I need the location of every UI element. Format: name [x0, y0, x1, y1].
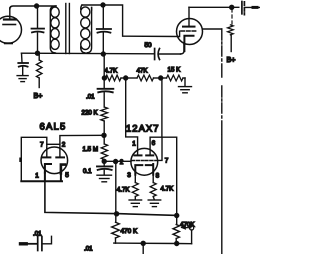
svg-text:B+: B+ [34, 91, 43, 100]
svg-text:0.1: 0.1 [83, 168, 92, 175]
wire plate feed pin1 [126, 78, 138, 155]
node nub on rail [19, 158, 21, 163]
resistor R9 4.7K right cathode [150, 175, 156, 200]
node junction R3/R4 [124, 76, 128, 80]
transformer T1 primary winding [50, 6, 59, 53]
svg-text:8: 8 [156, 173, 160, 180]
node junction grid / 470K [114, 160, 118, 164]
capacitor C4 value 50 [155, 49, 160, 60]
wire plate feed pin6 [150, 78, 177, 215]
wire 6AL5 cathode bottom [21, 173, 62, 182]
tube V1 (detector) [0, 8, 22, 43]
ground under C7 [97, 175, 112, 182]
resistor R7 1.5M [101, 135, 107, 159]
node junction 470K bus [115, 212, 119, 216]
transformer T1 core [66, 4, 70, 54]
node junction top cap C1 [35, 4, 39, 8]
capacitor C3 (tank tuning) [97, 5, 111, 54]
svg-text:470K: 470K [180, 221, 195, 228]
node junction tank cap bottom [101, 52, 105, 56]
node junction pot top [175, 214, 179, 218]
svg-text:15 K: 15 K [168, 67, 182, 74]
svg-text:.01: .01 [33, 231, 42, 238]
wire cathode V2 down [183, 44, 185, 51]
tube V4 12AX7 [131, 148, 158, 175]
svg-text:6AL5: 6AL5 [40, 122, 67, 133]
svg-text:4.7K: 4.7K [105, 68, 119, 75]
svg-text:4.7K: 4.7K [161, 186, 175, 193]
wire secondary top to grid [82, 5, 179, 37]
svg-text:1.5 M: 1.5 M [83, 146, 98, 153]
node junction R4/R5 [159, 76, 163, 80]
capacitor C2 (AVC bypass) [18, 53, 28, 75]
svg-text:2: 2 [120, 159, 124, 166]
node junction bottom C1 [36, 51, 40, 55]
capacitor C6 .01 [98, 78, 114, 107]
node junction tank cap top [101, 3, 105, 7]
tube V3 6AL5 [41, 147, 68, 174]
resistor R10 470K [112, 162, 120, 244]
wire grid 12AX7 pin2 [104, 160, 131, 162]
capacitor C7 0.1 [97, 161, 112, 174]
wire plate V2 to output [189, 6, 239, 8]
wire 6AL5 pin7 loop [21, 137, 47, 181]
capacitor C5 (output coupling) [242, 2, 260, 15]
node junction B+ resistor [230, 5, 234, 9]
svg-text:7: 7 [165, 157, 169, 164]
svg-text:50: 50 [145, 42, 153, 49]
svg-text:7: 7 [40, 142, 44, 149]
svg-text:12AX7: 12AX7 [126, 124, 160, 135]
wire bottom bus left [22, 52, 154, 55]
node junction resistor row left [102, 76, 106, 80]
wire bottom return bus [114, 242, 192, 245]
node junction output tap [141, 241, 145, 245]
ground under C2 [17, 76, 28, 82]
svg-text:B+: B+ [227, 55, 236, 64]
svg-text:2: 2 [62, 142, 66, 149]
resistor R6 220K [101, 107, 108, 135]
node junction pot bottom [175, 242, 179, 246]
svg-text:.01: .01 [86, 94, 95, 101]
capacitor C8 .01 bottom left [21, 236, 52, 250]
resistor R5 15K [161, 75, 185, 86]
capacitor C1 [32, 6, 45, 54]
resistor R2 (B+ dropping, right) [228, 9, 234, 52]
svg-text:220 K: 220 K [82, 110, 99, 117]
ground after 15K [179, 87, 192, 93]
tube V2 (1st audio) [177, 7, 203, 44]
wire grid pin7 [158, 137, 162, 160]
resistor R1 (B+ feed) [36, 54, 42, 88]
svg-text:3: 3 [127, 172, 131, 179]
ground right cathode [148, 200, 161, 207]
svg-text:5: 5 [65, 172, 69, 179]
wire shield dash line [203, 29, 222, 254]
transformer T1 secondary winding [81, 5, 92, 53]
potentiometer R11 470K [173, 216, 194, 244]
node junction 220K / pin2 wire [102, 133, 106, 137]
resistor R8 4.7K left cathode [132, 175, 138, 200]
wire bottom bus right of C4 [159, 53, 181, 55]
wire crossbar pins 7-2 [47, 143, 60, 145]
wire cathode to bottom bus [45, 181, 177, 215]
svg-text:.01: .01 [84, 246, 93, 253]
wire top-left rail [10, 6, 56, 9]
svg-text:6: 6 [152, 140, 156, 147]
resistor R4 47K [126, 75, 161, 81]
wire output down [142, 243, 144, 254]
svg-text:4.7K: 4.7K [117, 187, 131, 194]
svg-text:1: 1 [35, 173, 39, 180]
ground left cathode [129, 200, 142, 207]
node junction 1.5M bottom [102, 159, 106, 163]
svg-text:1: 1 [132, 140, 136, 147]
svg-text:47K: 47K [137, 68, 149, 75]
resistor R3 4.7K [106, 75, 126, 81]
wire grid stub V2 [179, 31, 181, 36]
wire divider chain [103, 54, 105, 75]
svg-text:470 K: 470 K [121, 228, 138, 235]
wire 6AL5 pin2 to chain [60, 135, 104, 148]
